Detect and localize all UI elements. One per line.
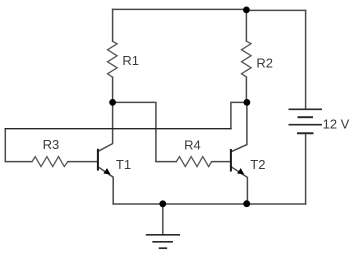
- wire battery bottom lead: [305, 133, 307, 204]
- resistor R2: [242, 41, 252, 77]
- svg-text:R4: R4: [184, 137, 201, 152]
- wire battery top lead: [305, 10, 307, 109]
- wire node-A to R4 (T1 collector to R4 left): [113, 102, 177, 161]
- wire T1 emitter lead: [99, 167, 114, 204]
- svg-text:T1: T1: [116, 157, 131, 172]
- transistor T1: [98, 149, 111, 175]
- svg-text:R2: R2: [256, 55, 273, 70]
- svg-text:R1: R1: [122, 53, 139, 68]
- ground: [146, 235, 180, 248]
- wire top rail right segment: [246, 9, 305, 11]
- node junction dot top (R2/top rail): [243, 6, 250, 13]
- wire R3 right lead to T1 base: [68, 161, 98, 163]
- wire top rail: [113, 8, 247, 10]
- resistor R4: [176, 157, 211, 167]
- node A junction dot (R1/T1 collector): [109, 99, 116, 106]
- wire R1 top lead: [112, 9, 114, 41]
- node B junction dot (R2/T2 collector): [244, 99, 251, 106]
- wire R1 bottom lead: [112, 77, 114, 102]
- wire cross-coupling left vertical to R3: [5, 129, 32, 162]
- wire cross-coupling T2 collector to corner: [231, 102, 247, 128]
- resistor R1: [108, 41, 118, 77]
- battery V1: [289, 109, 323, 133]
- resistor R3: [32, 157, 68, 167]
- node T2 emitter junction dot: [243, 200, 250, 207]
- wire R4 right lead to T2 base: [212, 161, 231, 163]
- wire T2 emitter lead: [232, 167, 248, 204]
- wire T1 collector lead: [99, 102, 113, 151]
- svg-text:12 V: 12 V: [323, 116, 350, 131]
- wire T2 collector lead: [232, 102, 247, 151]
- wire ground stub: [162, 204, 164, 235]
- wire cross-coupling long horizontal run: [5, 128, 231, 130]
- wire bottom rail: [113, 203, 305, 205]
- wire R2 top lead: [245, 10, 247, 42]
- transistor T2: [231, 149, 244, 175]
- svg-text:T2: T2: [250, 157, 265, 172]
- wire R2 bottom lead: [245, 77, 247, 103]
- node ground junction dot: [159, 200, 166, 207]
- svg-text:R3: R3: [43, 137, 60, 152]
